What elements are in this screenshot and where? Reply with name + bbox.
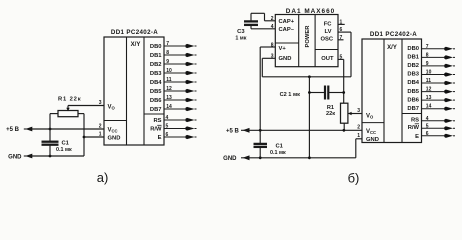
svg-text:CAP–: CAP– (279, 27, 295, 33)
svg-text:X/Y: X/Y (131, 42, 141, 48)
svg-text:DB4: DB4 (407, 80, 419, 86)
svg-text:DB2: DB2 (150, 62, 162, 68)
IC DA1 MAX660 body (275, 15, 338, 67)
wire R1 wiper to pin 3 V0 (circuit b) (348, 112, 362, 115)
pin 9 label (circuit b) (426, 61, 429, 67)
wire OUT pin 5 down to R1 (338, 59, 344, 103)
label DB0 (circuit b) (407, 46, 419, 52)
svg-text:GND: GND (8, 154, 22, 160)
wire R1 right lead to GND (circuit a) (78, 114, 84, 156)
wire DB6 output with arrow (circuit b) (422, 98, 456, 102)
label RS (circuit b) (411, 118, 419, 124)
capacitor C3 1uF (245, 21, 258, 26)
node GND-C1 junction (circuit b) (259, 156, 262, 159)
wire DB2 output with arrow (circuit b) (422, 64, 456, 68)
svg-text:DB4: DB4 (150, 80, 162, 86)
IC DD1 left column separator (circuit b) (362, 122, 384, 124)
svg-text:RS: RS (411, 118, 419, 124)
wire R1 left lead to +5V rail (circuit a) (50, 114, 58, 129)
net +5V supply terminal (circuit b) (226, 128, 250, 134)
IC DA1 divider right (314, 15, 316, 67)
pin 1 label (circuit b) (357, 133, 360, 139)
pin 5 label (DA1) (340, 54, 343, 60)
svg-text:3: 3 (99, 100, 102, 106)
wire R/W output with arrow (circuit b) (422, 126, 456, 130)
net GND terminal (circuit b) (223, 155, 249, 162)
label OSC (320, 37, 333, 43)
pin 7 label (circuit a) (166, 41, 169, 47)
wire DB0 output with arrow (circuit a) (164, 44, 197, 48)
wire RS output with arrow (circuit b) (422, 119, 456, 123)
svg-text:R/W: R/W (150, 127, 162, 133)
wire DB5 output with arrow (circuit a) (164, 89, 197, 93)
IC DD1 left field divider (circuit b) (383, 39, 385, 143)
pin 9 label (circuit a) (166, 59, 169, 65)
label X/Y function (circuit b) (387, 45, 397, 51)
pin 13 label (circuit a) (166, 95, 172, 101)
wire E output with arrow (circuit b) (422, 134, 456, 138)
svg-text:1 мк: 1 мк (235, 36, 246, 42)
wire DB2 output with arrow (circuit a) (164, 62, 197, 66)
svg-text:DB0: DB0 (407, 46, 419, 52)
label R1 value (circuit a) (58, 96, 81, 102)
wire DB3 output with arrow (circuit a) (164, 71, 197, 75)
svg-text:OSC: OSC (320, 37, 333, 43)
svg-text:1: 1 (99, 131, 102, 137)
pin 5 label (circuit a) (166, 124, 169, 130)
label RS (circuit a) (153, 118, 161, 124)
label GND pin (DA1) (279, 56, 292, 62)
wire DB4 output with arrow (circuit a) (164, 80, 197, 84)
svg-text:VO: VO (366, 114, 374, 120)
net GND terminal (circuit a) (8, 154, 32, 161)
pin 8 label (DA1) (271, 42, 274, 48)
wire R1 wiper to pin 3 V0 (circuit a) (66, 106, 104, 112)
resistor R1 22k trimmer (circuit a) (58, 111, 78, 117)
wire GND rail to pin 1 (circuit b) (356, 139, 362, 158)
pin 12 label (circuit a) (166, 86, 172, 92)
svg-text:DD1 PC2402-A: DD1 PC2402-A (370, 31, 417, 38)
svg-text:GND: GND (279, 56, 292, 62)
IC DA1 left column separator (275, 42, 298, 44)
svg-text:DB7: DB7 (407, 106, 419, 112)
svg-text:VCC: VCC (366, 129, 376, 135)
svg-text:1: 1 (357, 133, 360, 139)
IC DD1 right field divider (circuit b) (401, 39, 403, 143)
label X/Y function (circuit a) (131, 42, 141, 48)
label DA1 MAX660 (286, 8, 335, 15)
resistor R1 22k trimmer (circuit b) (341, 103, 348, 123)
pin 5 label (circuit b) (426, 123, 429, 129)
label CAP- (279, 27, 295, 33)
svg-text:RS: RS (153, 118, 161, 124)
svg-text:2: 2 (99, 123, 102, 129)
pin 1 label (circuit a) (99, 131, 102, 137)
svg-text:V+: V+ (279, 46, 287, 52)
pin 4 label (DA1) (271, 24, 274, 30)
svg-text:C2 1 мк: C2 1 мк (280, 92, 301, 98)
IC DD1 PC2402-A body (circuit b) (362, 39, 422, 143)
wire GND rail (circuit b) (249, 157, 356, 159)
label VCC (circuit b) (366, 129, 376, 135)
IC DD1 right column separator (circuit b) (402, 113, 422, 115)
pin 14 label (circuit a) (166, 104, 172, 110)
wire GND pin 3 to bus (262, 58, 275, 77)
IC DD1 left field divider (circuit a) (126, 37, 128, 145)
pin OSC stub (338, 39, 344, 41)
svg-text:22к: 22к (326, 111, 335, 117)
capacitor C1 0.1uF (circuit b) (254, 130, 267, 158)
label E (circuit a) (158, 135, 162, 141)
label DB3 (circuit a) (150, 71, 162, 77)
svg-text:а): а) (97, 170, 109, 185)
svg-text:DB6: DB6 (150, 98, 162, 104)
svg-text:VCC: VCC (108, 128, 118, 134)
label DD1 PC2402-A (circuit a) (111, 29, 158, 36)
label R/W with overline (circuit b) (408, 124, 420, 131)
pin 2 label (DA1) (271, 16, 274, 22)
label GND pin (circuit a) (108, 136, 121, 142)
node GND rail junction at x309 (308, 156, 311, 159)
label C1 value (circuit b) (270, 143, 286, 156)
capacitor C1 0.1uF (circuit a) (42, 129, 58, 156)
label R1 (circuit b) (326, 105, 335, 117)
pin 2 label (circuit b) (357, 125, 360, 131)
svg-text:DB3: DB3 (407, 72, 419, 78)
svg-text:DB5: DB5 (150, 89, 162, 95)
svg-text:DB2: DB2 (407, 63, 419, 69)
node +5V-C1-R1 junction (circuit a) (49, 128, 52, 131)
pin 6 label (circuit a) (166, 132, 169, 138)
label R/W with overline (circuit a) (150, 125, 162, 132)
pin 1 label (DA1) (340, 20, 343, 26)
pin 4 label (circuit a) (166, 115, 169, 121)
wire bus down to GND rail (308, 77, 310, 158)
IC DD1 right field divider (circuit a) (143, 37, 145, 145)
pin 14 label (circuit b) (426, 104, 432, 110)
label DB1 (circuit b) (407, 55, 419, 61)
wire GND to pin 1 (circuit a) (84, 136, 104, 138)
wire +5V rail (circuit b) (249, 129, 362, 131)
svg-text:R/W: R/W (408, 125, 420, 131)
label DB5 (circuit a) (150, 89, 162, 95)
net +5V supply terminal (circuit a) (6, 127, 32, 133)
pin 10 label (circuit a) (166, 68, 172, 74)
wire DB6 output with arrow (circuit a) (164, 98, 197, 102)
pin FC stub (338, 23, 345, 25)
svg-text:DB6: DB6 (407, 97, 419, 103)
label circuit a) (97, 170, 109, 185)
node R1-+5V junction (circuit b) (343, 129, 346, 132)
node GND-pin1 junction (circuit a) (83, 136, 86, 139)
label OUT (321, 56, 334, 62)
label POWER rotated (305, 25, 311, 48)
label VCC (circuit a) (108, 128, 118, 134)
pin 12 label (circuit b) (426, 87, 432, 93)
label GND pin (circuit b) (366, 137, 379, 143)
pin 10 label (circuit b) (426, 70, 432, 76)
svg-text:DD1 PC2402-A: DD1 PC2402-A (111, 29, 158, 36)
pin 11 label (circuit b) (426, 78, 432, 84)
svg-text:OUT: OUT (321, 56, 334, 62)
svg-text:CAP+: CAP+ (279, 19, 295, 25)
label CAP+ (279, 19, 295, 25)
wire DB7 output with arrow (circuit b) (422, 107, 456, 111)
svg-text:GND: GND (366, 137, 379, 143)
svg-text:POWER: POWER (305, 25, 311, 48)
label FC (324, 21, 333, 27)
wire DB4 output with arrow (circuit b) (422, 81, 456, 85)
pin 3 label (circuit a) (99, 100, 102, 106)
label C3 (235, 29, 246, 41)
IC DD1 PC2402-A body (circuit a) (104, 37, 164, 145)
label V0 (circuit b) (366, 114, 374, 120)
pin 2 label (circuit a) (99, 123, 102, 129)
IC DA1 right column separator (315, 49, 338, 51)
wire +5V rail to pin 2 (circuit a) (32, 128, 104, 130)
wire ground bus under DA1 (262, 76, 351, 78)
label DB7 (circuit b) (407, 106, 419, 112)
label V+ (279, 46, 287, 52)
label DB4 (circuit b) (407, 80, 419, 86)
svg-text:LV: LV (325, 29, 332, 35)
label V0 (circuit a) (108, 105, 116, 111)
pin 7 label (DA1) (340, 35, 343, 41)
wire GND rail (circuit a) (32, 155, 84, 157)
svg-text:С1: С1 (276, 143, 284, 149)
svg-text:С1: С1 (62, 140, 70, 146)
wire DB0 output with arrow (circuit b) (422, 47, 456, 51)
svg-text:E: E (415, 134, 419, 140)
svg-text:DB7: DB7 (150, 107, 162, 113)
label DB7 (circuit a) (150, 107, 162, 113)
wire V+ pin 8 to +5V rail (260, 47, 275, 130)
svg-text:0.1 мк: 0.1 мк (270, 150, 286, 156)
IC DD1 right column separator (circuit a) (144, 113, 164, 115)
label DB6 (circuit b) (407, 97, 419, 103)
label DB4 (circuit a) (150, 80, 162, 86)
wire E output with arrow (circuit a) (164, 135, 197, 139)
svg-text:VO: VO (108, 105, 116, 111)
label LV (325, 29, 332, 35)
label DB3 (circuit b) (407, 72, 419, 78)
svg-text:2: 2 (357, 125, 360, 131)
IC DA1 divider left (298, 15, 300, 67)
pin 8 label (circuit b) (426, 52, 429, 58)
pin 6 label (circuit b) (426, 131, 429, 137)
svg-text:DB0: DB0 (150, 44, 162, 50)
node C2 right junction (342, 91, 345, 94)
wire RS output with arrow (circuit a) (164, 118, 197, 122)
svg-text:DA1 MAX660: DA1 MAX660 (286, 8, 335, 15)
wire LV pin 6 to ground bus (338, 32, 351, 77)
label DB0 (circuit a) (150, 44, 162, 50)
wire C3 bottom to CAP- pin 4 (251, 26, 275, 29)
svg-text:DB1: DB1 (150, 53, 162, 59)
svg-text:FC: FC (324, 21, 333, 27)
svg-text:DB5: DB5 (407, 89, 419, 95)
svg-text:GND: GND (223, 156, 237, 162)
svg-text:3: 3 (357, 108, 360, 114)
svg-text:DB1: DB1 (407, 55, 419, 61)
label DB6 (circuit a) (150, 98, 162, 104)
wire R1 bottom to +5V rail (343, 123, 345, 130)
svg-text:б): б) (348, 171, 360, 186)
node GND-C1 junction (circuit a) (49, 155, 52, 158)
wire DB1 output with arrow (circuit b) (422, 55, 456, 59)
wire CAP+ pin 2 to C3 top (251, 13, 275, 20)
pin 8 label (circuit a) (166, 50, 169, 56)
label C1 value (circuit a) (56, 140, 72, 153)
label DD1 PC2402-A (circuit b) (370, 31, 417, 38)
wire R/W output with arrow (circuit a) (164, 126, 197, 130)
IC DD1 left column separator (circuit a) (104, 120, 127, 122)
pin 3 label (circuit b) (357, 108, 360, 114)
pin 4 label (circuit b) (426, 116, 429, 122)
label DB2 (circuit b) (407, 63, 419, 69)
wire DB7 output with arrow (circuit a) (164, 107, 197, 111)
pin 3 label (DA1) (271, 53, 274, 59)
label DB1 (circuit a) (150, 53, 162, 59)
wire DB3 output with arrow (circuit b) (422, 72, 456, 76)
node +5V-C1-V+ junction (circuit b) (259, 129, 262, 132)
label C2 value (280, 92, 301, 98)
wire DB1 output with arrow (circuit a) (164, 53, 197, 57)
pin 6 label (DA1) (340, 27, 343, 33)
svg-text:E: E (158, 135, 162, 141)
pin 13 label (circuit b) (426, 95, 432, 101)
node C2 left junction (308, 91, 311, 94)
label circuit b) (348, 171, 360, 186)
pin 11 label (circuit a) (166, 77, 172, 83)
svg-text:X/Y: X/Y (387, 45, 397, 51)
node bus to GND rail junction (308, 75, 311, 78)
capacitor C2 1uF (309, 86, 343, 99)
svg-text:R1 22к: R1 22к (58, 96, 81, 102)
svg-text:C3: C3 (237, 29, 245, 35)
label DB2 (circuit a) (150, 62, 162, 68)
svg-text:DB3: DB3 (150, 71, 162, 77)
label DB5 (circuit b) (407, 89, 419, 95)
label E (circuit b) (415, 134, 419, 140)
svg-text:+5 В: +5 В (226, 128, 240, 134)
svg-text:0.1 мк: 0.1 мк (56, 147, 72, 153)
pin 7 label (circuit b) (426, 44, 429, 50)
wire DB5 output with arrow (circuit b) (422, 90, 456, 94)
svg-text:+5 В: +5 В (6, 127, 20, 133)
svg-text:GND: GND (108, 136, 121, 142)
